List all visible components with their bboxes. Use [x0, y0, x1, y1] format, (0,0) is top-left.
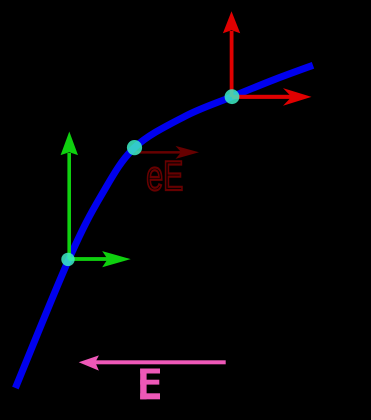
green velocity arrow horizontal head [102, 251, 131, 267]
red velocity arrow vertical head [223, 11, 240, 33]
green velocity arrow vertical head [61, 132, 78, 156]
red velocity arrow horizontal head [283, 88, 312, 106]
maroon force arrow head [176, 146, 200, 159]
label eE (force on electron) [146, 152, 183, 199]
maroon force arrow shaft [136, 151, 183, 154]
label E (electric field) [140, 369, 160, 400]
electron dot at top position [225, 89, 240, 104]
pink electric field arrow head [79, 355, 99, 370]
green velocity arrow vertical shaft [67, 153, 71, 260]
red velocity arrow horizontal shaft [232, 95, 292, 99]
electron dot at lower position [61, 253, 74, 266]
pink electric field arrow shaft [95, 360, 226, 364]
svg-text:eE: eE [146, 152, 183, 199]
green velocity arrow horizontal shaft [69, 257, 108, 261]
electron dot at middle position [127, 140, 142, 155]
red velocity arrow vertical shaft [230, 31, 234, 97]
electron trajectory curve [15, 65, 313, 388]
